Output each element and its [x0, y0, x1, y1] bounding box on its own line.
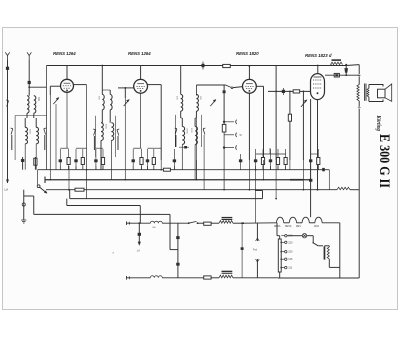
svg-text:Körting: Körting [375, 115, 381, 131]
svg-text:LA: LA [137, 249, 140, 253]
svg-text:300: 300 [37, 97, 40, 102]
svg-text:150: 150 [288, 251, 293, 254]
svg-text:110: 110 [288, 267, 293, 270]
svg-text:Fsd: Fsd [253, 247, 258, 251]
svg-text:125: 125 [288, 258, 293, 261]
svg-text:240: 240 [288, 235, 293, 238]
svg-text:RENS: RENS [285, 226, 292, 228]
svg-text:RGN: RGN [314, 226, 319, 228]
svg-text:RENS 1823 d: RENS 1823 d [305, 53, 332, 58]
svg-text:LA: LA [5, 188, 9, 192]
svg-text:220: 220 [288, 241, 293, 244]
svg-text:RENS 1264: RENS 1264 [128, 51, 151, 56]
svg-text:6000: 6000 [29, 129, 31, 135]
svg-text:RES: RES [296, 226, 301, 228]
svg-text:RENS 1264: RENS 1264 [53, 51, 76, 56]
svg-text:16000: 16000 [186, 128, 188, 134]
svg-text:E 300 G II: E 300 G II [376, 134, 392, 188]
svg-text:RENS 1820: RENS 1820 [236, 51, 259, 56]
svg-text:6000: 6000 [105, 124, 107, 130]
